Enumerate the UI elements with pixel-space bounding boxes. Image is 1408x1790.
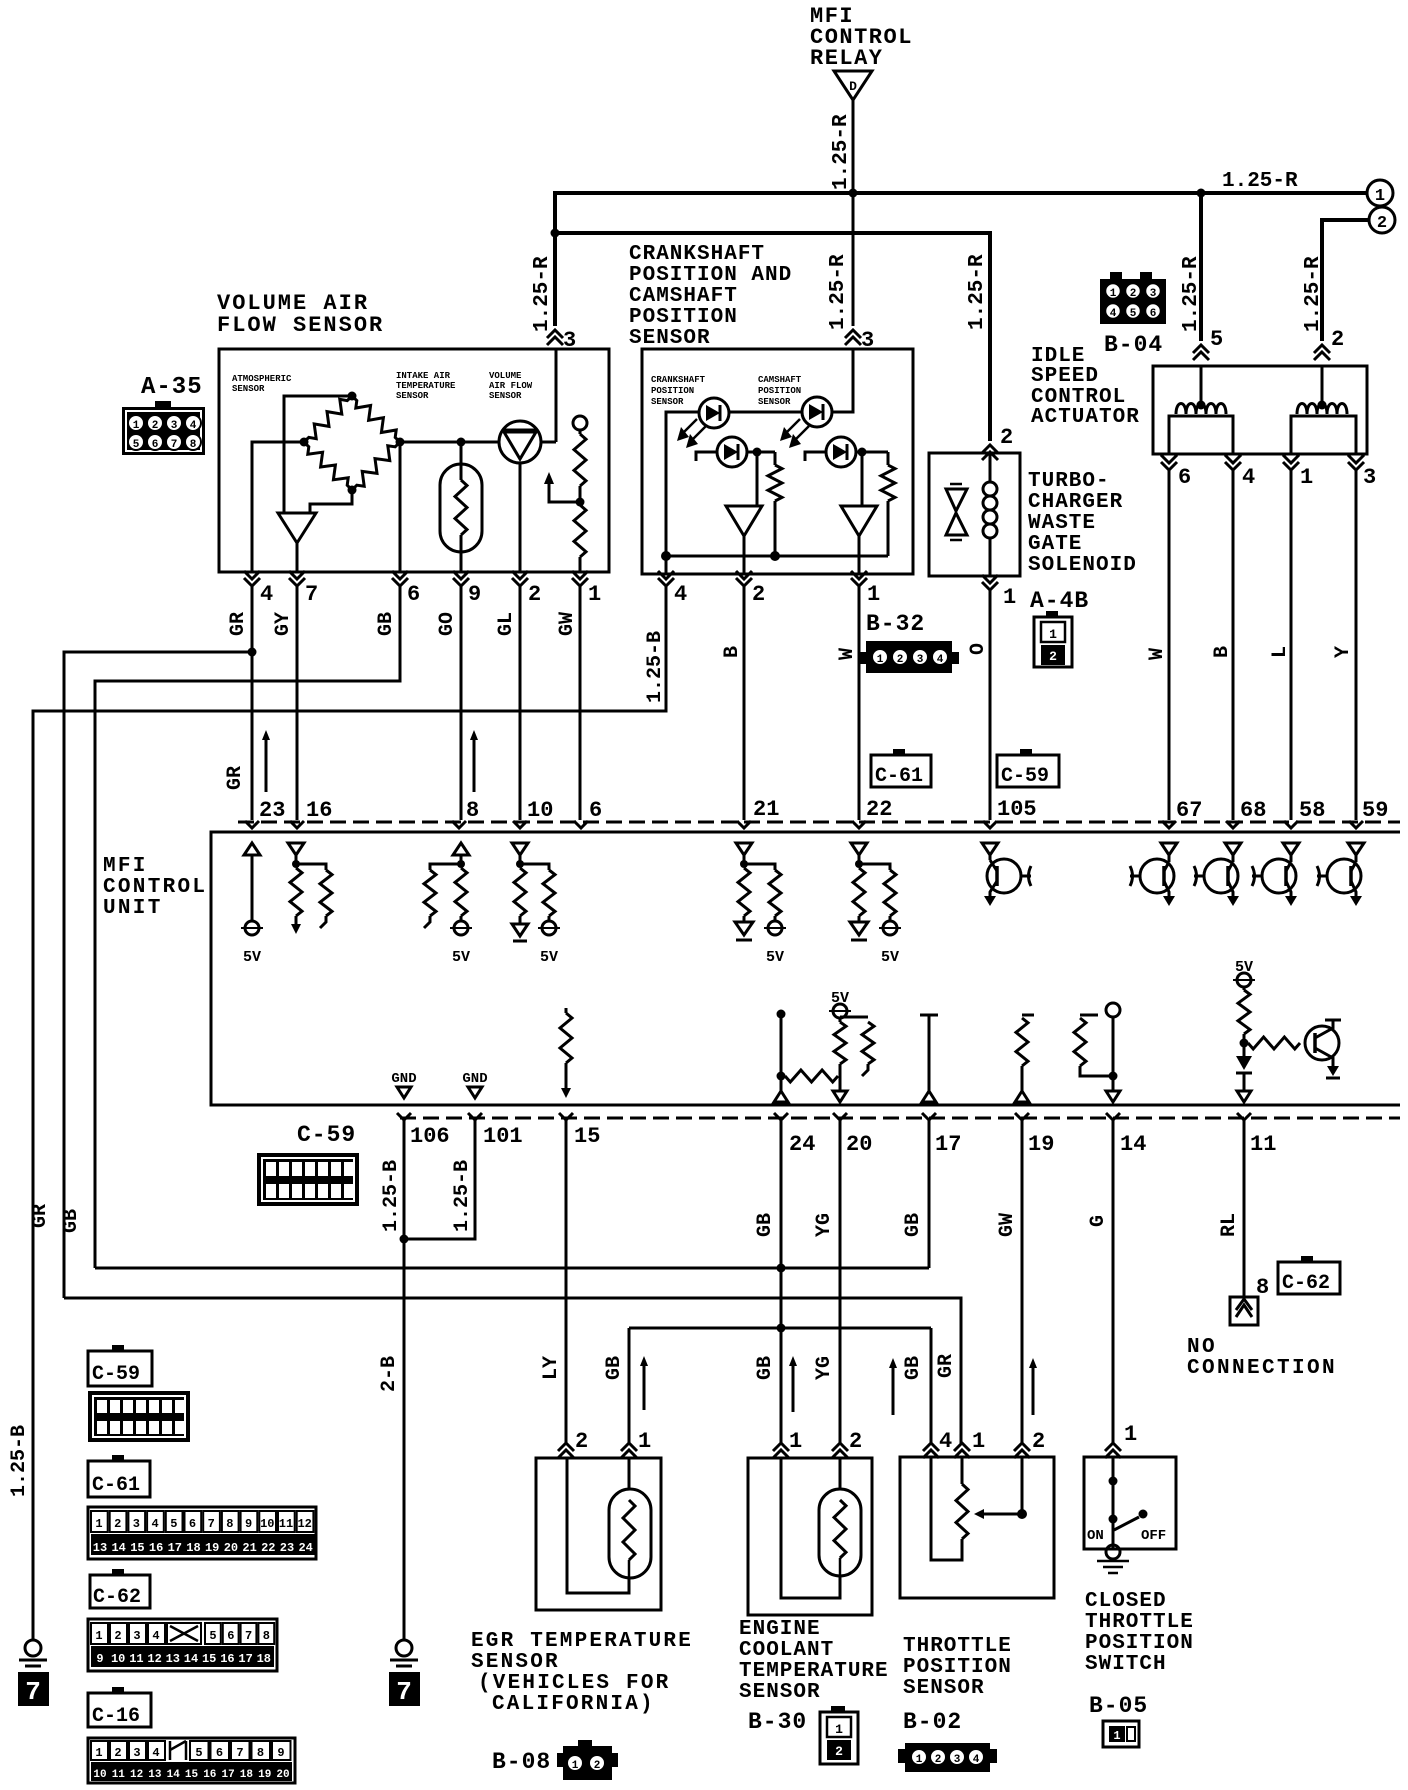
- svg-text:4: 4: [151, 1517, 158, 1531]
- svg-text:SENSOR: SENSOR: [651, 397, 684, 407]
- pin 1 arrow ISC bottom: [1283, 462, 1299, 470]
- svg-text:16: 16: [203, 1769, 216, 1781]
- svg-text:19: 19: [258, 1769, 271, 1781]
- svg-text:B: B: [1211, 646, 1234, 658]
- svg-text:1.25-B: 1.25-B: [451, 1160, 474, 1232]
- svg-text:CONNECTION: CONNECTION: [1187, 1357, 1337, 1380]
- wire between LEDs: [729, 411, 802, 414]
- svg-text:GB: GB: [603, 1356, 626, 1380]
- potentiometer TPS: [961, 1457, 964, 1484]
- svg-text:1: 1: [972, 1429, 985, 1454]
- pin 9 arrow VAF bottom: [453, 578, 469, 586]
- wire cam photo junction to amp: [861, 452, 864, 506]
- wire GY VAF7 to MFI16: [296, 586, 299, 820]
- svg-text:4: 4: [939, 1429, 952, 1454]
- pin 4 arrow TPS: [923, 1443, 939, 1451]
- svg-text:5V: 5V: [243, 949, 261, 966]
- wire GL VAF2 to MFI10: [519, 586, 522, 820]
- svg-text:CLOSED: CLOSED: [1085, 1590, 1167, 1613]
- phototransistor camshaft: [826, 437, 856, 467]
- pin 6 arrow ISC bottom: [1161, 462, 1177, 470]
- svg-text:13: 13: [93, 1541, 107, 1555]
- wire coil1 right leg to pin 4: [1229, 416, 1233, 454]
- svg-text:7: 7: [171, 439, 178, 451]
- svg-text:4: 4: [260, 582, 273, 607]
- svg-text:1: 1: [1003, 585, 1016, 610]
- wire crank LED to left rail: [666, 412, 699, 574]
- wire 1.25-R bus A: [553, 191, 1368, 195]
- svg-text:C-16: C-16: [92, 1705, 140, 1728]
- pin 1 arrow EGR: [621, 1443, 637, 1451]
- wire pin3 into crank box to LEDs: [832, 349, 853, 412]
- svg-text:18: 18: [240, 1769, 254, 1781]
- wire 1.25-R bus A down to VAF pin 3: [553, 193, 557, 326]
- connector A-4B: [1046, 611, 1058, 618]
- svg-text:24: 24: [789, 1132, 815, 1157]
- svg-text:6: 6: [189, 1517, 196, 1531]
- svg-text:1: 1: [835, 1722, 843, 1737]
- wire GW pin19 to TPS pin2: [1021, 1120, 1024, 1445]
- svg-text:THROTTLE: THROTTLE: [1085, 1611, 1194, 1634]
- svg-text:1: 1: [1124, 1422, 1137, 1447]
- svg-text:FLOW SENSOR: FLOW SENSOR: [217, 313, 384, 338]
- phototransistor crankshaft: [717, 437, 747, 467]
- pin 8 interior resistors 5V: [453, 843, 469, 855]
- svg-text:1: 1: [133, 420, 140, 432]
- wire 2-B to ground 7: [403, 1239, 406, 1641]
- svg-text:59: 59: [1362, 798, 1388, 823]
- svg-text:5V: 5V: [452, 949, 470, 966]
- svg-text:POSITION: POSITION: [1085, 1632, 1194, 1655]
- junction GB rail2 pin24: [777, 1324, 786, 1333]
- svg-text:7: 7: [396, 1677, 412, 1707]
- connector C-59 pinblock mid: [257, 1153, 359, 1206]
- svg-text:ON: ON: [1087, 1528, 1104, 1544]
- svg-text:TEMPERATURE: TEMPERATURE: [396, 381, 456, 391]
- svg-text:C-61: C-61: [875, 765, 923, 788]
- junction potentiometer wiper: [576, 498, 585, 507]
- pin 2 arrow ISC: [1314, 345, 1330, 353]
- svg-text:1.25-R: 1.25-R: [1302, 256, 1325, 332]
- junction bus B on VAF3 wire: [551, 229, 560, 238]
- svg-text:3: 3: [171, 420, 178, 432]
- svg-text:GR: GR: [224, 766, 247, 790]
- svg-text:(VEHICLES FOR: (VEHICLES FOR: [478, 1672, 670, 1695]
- connector tag C-16 left: [112, 1687, 124, 1694]
- svg-text:7: 7: [208, 1517, 215, 1531]
- junction B-04 pin5 wire on bus A: [1197, 189, 1206, 198]
- wire B crank2 to MFI21: [743, 586, 746, 820]
- svg-text:6: 6: [152, 439, 159, 451]
- svg-text:9: 9: [468, 582, 481, 607]
- pin 7 arrow VAF bottom: [289, 578, 305, 586]
- svg-text:10: 10: [93, 1769, 106, 1781]
- pin 1 arrow VAF bottom: [572, 578, 588, 586]
- svg-text:2: 2: [152, 420, 159, 432]
- thermistor ECT: [839, 1458, 842, 1489]
- arrow up GB TPS wire: [892, 1364, 895, 1415]
- svg-text:10: 10: [527, 798, 553, 823]
- svg-text:15: 15: [202, 1652, 216, 1666]
- pin chevrons MFI row2: [397, 1113, 411, 1120]
- svg-text:AIR FLOW: AIR FLOW: [489, 381, 533, 391]
- pin 1 arrow ECT: [773, 1443, 789, 1451]
- wire GB pin24 to ECT pin1: [780, 1120, 783, 1445]
- svg-text:17: 17: [221, 1769, 234, 1781]
- svg-text:21: 21: [242, 1541, 256, 1555]
- solenoid coil turbo: [989, 453, 992, 482]
- svg-text:SWITCH: SWITCH: [1085, 1653, 1167, 1676]
- svg-text:B-32: B-32: [866, 611, 925, 637]
- node bridge top: [348, 392, 357, 401]
- svg-text:2: 2: [114, 1746, 121, 1760]
- pin 1 arrow crank bottom: [851, 578, 867, 586]
- svg-text:SENSOR: SENSOR: [903, 1677, 985, 1700]
- svg-text:68: 68: [1240, 798, 1266, 823]
- svg-text:VOLUME: VOLUME: [489, 371, 522, 381]
- svg-text:GR: GR: [935, 1354, 958, 1378]
- pin 3 arrow crank: [845, 330, 861, 338]
- svg-text:UNIT: UNIT: [103, 897, 163, 920]
- switch closed throttle position: [1112, 1457, 1115, 1549]
- LED camshaft position sensor: [802, 397, 832, 427]
- ground symbol 7 left: [25, 1640, 41, 1656]
- svg-text:RELAY: RELAY: [810, 46, 884, 71]
- resistor potentiometer upper: [579, 430, 582, 434]
- svg-text:2: 2: [1331, 327, 1344, 352]
- svg-text:SPEED: SPEED: [1031, 365, 1099, 388]
- node bridge right: [396, 438, 405, 447]
- box EGR temperature sensor: [536, 1458, 661, 1610]
- svg-text:101: 101: [483, 1124, 523, 1149]
- valve symbol waste gate (bowtie): [946, 489, 967, 511]
- svg-text:B-30: B-30: [748, 1709, 807, 1735]
- svg-text:W: W: [1146, 648, 1169, 660]
- svg-text:1.25-R: 1.25-R: [1222, 170, 1298, 193]
- svg-text:SENSOR: SENSOR: [739, 1681, 821, 1704]
- svg-text:GR: GR: [227, 612, 250, 636]
- svg-text:1: 1: [638, 1429, 651, 1454]
- svg-text:GB: GB: [902, 1356, 925, 1380]
- svg-text:23: 23: [259, 798, 285, 823]
- box throttle position sensor: [900, 1457, 1054, 1598]
- svg-text:POSITION: POSITION: [629, 306, 738, 329]
- pin 4 arrow ISC bottom: [1225, 462, 1241, 470]
- svg-text:SOLENOID: SOLENOID: [1028, 554, 1137, 577]
- svg-text:B-05: B-05: [1089, 1693, 1148, 1719]
- svg-text:MFI: MFI: [103, 855, 148, 878]
- wire circled2 to ISC pin 2: [1322, 220, 1369, 341]
- svg-text:C-62: C-62: [1282, 1272, 1330, 1295]
- wire 1.25-R B-04 pin5 to ISC: [1199, 193, 1203, 341]
- svg-text:GATE: GATE: [1028, 533, 1082, 556]
- svg-text:A-4B: A-4B: [1030, 588, 1089, 614]
- svg-text:1: 1: [1113, 1729, 1120, 1743]
- svg-text:6: 6: [227, 1629, 234, 1643]
- node bridge left: [300, 438, 309, 447]
- svg-text:8: 8: [263, 1629, 270, 1643]
- arrow up GR wire: [265, 736, 268, 792]
- svg-text:13: 13: [148, 1769, 162, 1781]
- svg-text:YG: YG: [813, 1213, 836, 1237]
- junction GR branch: [248, 648, 257, 657]
- wire bridge top to amplifier: [284, 396, 352, 513]
- pin 2 arrow VAF bottom: [512, 578, 528, 586]
- wire bridge left to pin 4: [252, 442, 304, 572]
- gnd triangle 101: [468, 1087, 482, 1098]
- svg-text:2: 2: [1377, 214, 1387, 233]
- svg-text:2: 2: [528, 582, 541, 607]
- svg-text:21: 21: [753, 797, 779, 822]
- svg-text:GB: GB: [375, 612, 398, 636]
- svg-text:106: 106: [410, 1124, 450, 1149]
- junction GB rail pin24: [777, 1264, 786, 1273]
- wire bottom rail crank box: [666, 555, 888, 558]
- wire GR branch to left riser: [64, 652, 252, 1298]
- svg-text:C-59: C-59: [1001, 765, 1049, 788]
- svg-text:19: 19: [1028, 1132, 1054, 1157]
- svg-text:SENSOR: SENSOR: [489, 391, 522, 401]
- svg-text:4: 4: [973, 1754, 980, 1766]
- svg-text:12: 12: [130, 1769, 143, 1781]
- pin 1 arrow CTP switch: [1105, 1443, 1121, 1451]
- svg-text:NO: NO: [1187, 1336, 1217, 1359]
- svg-text:C-59: C-59: [297, 1122, 356, 1148]
- wire cam photo to resistor: [856, 451, 888, 454]
- wire 1.25-B pin101: [404, 1120, 475, 1239]
- connector C-61 pinblock: [88, 1507, 316, 1559]
- svg-text:13: 13: [166, 1652, 180, 1666]
- connector C-62 end (no connection): [1230, 1297, 1258, 1325]
- wire YG pin20 to ECT pin2: [839, 1120, 842, 1445]
- svg-text:C-59: C-59: [92, 1363, 140, 1386]
- svg-text:ACTUATOR: ACTUATOR: [1031, 406, 1140, 429]
- connector tag C-61 left: [112, 1455, 124, 1462]
- wire flow circle to pin 3 riser: [541, 441, 556, 444]
- svg-text:G: G: [1087, 1215, 1110, 1227]
- transistor pin 68: [1225, 843, 1241, 855]
- resistor pin 15 interior: [565, 1008, 568, 1013]
- svg-text:5V: 5V: [881, 949, 899, 966]
- svg-text:GY: GY: [272, 612, 295, 636]
- svg-text:W: W: [836, 648, 859, 660]
- junction intake air temp tap: [457, 438, 466, 447]
- svg-text:24: 24: [298, 1541, 312, 1555]
- pin 17 interior: [920, 1014, 938, 1017]
- junction rail left: [661, 551, 671, 561]
- svg-text:TURBO-: TURBO-: [1028, 470, 1110, 493]
- wire O turbo1 to MFI105: [989, 590, 992, 820]
- pin 1 arrow TPS: [954, 1443, 970, 1451]
- svg-text:2: 2: [752, 582, 765, 607]
- wire GB to EGR pin1: [628, 1328, 631, 1445]
- svg-text:4: 4: [674, 582, 687, 607]
- pin 2 arrow turbo: [982, 445, 998, 453]
- box crankshaft and camshaft position sensor: [642, 349, 913, 574]
- svg-text:1: 1: [95, 1629, 102, 1643]
- pin 16 interior resistors: [288, 843, 304, 855]
- svg-text:CRANKSHAFT: CRANKSHAFT: [629, 243, 765, 266]
- box MFI control unit: [211, 832, 1400, 1105]
- svg-text:GW: GW: [556, 612, 579, 636]
- svg-text:18: 18: [257, 1652, 271, 1666]
- svg-text:ATMOSPHERIC: ATMOSPHERIC: [232, 374, 292, 384]
- svg-text:CRANKSHAFT: CRANKSHAFT: [651, 375, 706, 385]
- svg-text:2: 2: [1130, 288, 1137, 300]
- pin 1 arrow turbo bottom: [982, 582, 998, 590]
- svg-text:8: 8: [257, 1746, 264, 1760]
- svg-text:POSITION AND: POSITION AND: [629, 264, 792, 287]
- base stub cam photo: [805, 452, 826, 461]
- wire GW VAF1 to MFI6: [579, 586, 582, 820]
- svg-text:14: 14: [167, 1769, 181, 1781]
- svg-text:SENSOR: SENSOR: [396, 391, 429, 401]
- wire crank amp to pin 2: [743, 536, 746, 574]
- svg-text:2: 2: [1032, 1429, 1045, 1454]
- wire crank photo junction to amp: [756, 452, 759, 506]
- svg-text:1: 1: [1049, 627, 1057, 642]
- wire 1.25-R relay to crank sensor pin 3: [852, 100, 855, 326]
- svg-text:2: 2: [897, 654, 904, 666]
- svg-text:2: 2: [594, 1760, 601, 1772]
- connector C-62 pinblock: [88, 1619, 277, 1671]
- svg-text:9: 9: [245, 1517, 252, 1531]
- svg-text:GB: GB: [754, 1213, 777, 1237]
- svg-text:CAMSHAFT: CAMSHAFT: [758, 375, 802, 385]
- wire RL pin11 to C-62: [1243, 1120, 1246, 1297]
- pin 5 arrow ISC: [1193, 345, 1209, 353]
- pin 2 arrow crank bottom: [736, 578, 752, 586]
- svg-text:GB: GB: [902, 1213, 925, 1237]
- svg-text:5: 5: [1130, 308, 1137, 320]
- pin 19 interior resistor: [1022, 1014, 1034, 1017]
- svg-text:20: 20: [846, 1132, 872, 1157]
- transistor pin 59: [1348, 843, 1364, 855]
- svg-text:2-B: 2-B: [378, 1356, 401, 1392]
- wire W crank1 to MFI22: [858, 586, 861, 820]
- svg-text:2: 2: [935, 1754, 942, 1766]
- svg-text:GL: GL: [495, 612, 518, 636]
- connector B-04: [1100, 279, 1166, 324]
- svg-text:10: 10: [111, 1652, 125, 1666]
- wire thermistor to pin 9: [460, 552, 463, 572]
- wire LY pin15 to EGR pin2: [565, 1120, 568, 1445]
- svg-text:14: 14: [1120, 1132, 1146, 1157]
- svg-text:1: 1: [588, 582, 601, 607]
- arrow up GB ECT wire: [792, 1362, 795, 1412]
- pin 2 arrow EGR: [558, 1443, 574, 1451]
- svg-text:20: 20: [224, 1541, 238, 1555]
- svg-text:17: 17: [238, 1652, 252, 1666]
- svg-text:GW: GW: [996, 1213, 1019, 1237]
- wire W ISC6 to MFI67: [1168, 470, 1171, 820]
- svg-text:14: 14: [111, 1541, 125, 1555]
- ground CTP switch: [1106, 1545, 1120, 1559]
- resistor potentiometer lower: [574, 505, 586, 557]
- light arrows crankshaft: [683, 419, 697, 433]
- svg-text:SENSOR: SENSOR: [758, 397, 791, 407]
- svg-text:1: 1: [572, 1760, 579, 1772]
- wire L ISC1 to MFI58: [1290, 470, 1293, 820]
- svg-text:6: 6: [1178, 465, 1191, 490]
- wiper arm volume air flow sensor: [549, 482, 578, 502]
- svg-text:5: 5: [133, 439, 140, 451]
- svg-text:1: 1: [867, 582, 880, 607]
- svg-text:1.25-B: 1.25-B: [380, 1160, 403, 1232]
- wire bridge right to pin 6: [399, 442, 402, 572]
- connector tag C-59 left: [112, 1345, 124, 1352]
- svg-text:5: 5: [195, 1746, 202, 1760]
- svg-text:2: 2: [835, 1744, 843, 1759]
- connector C-59 pinblock left: [88, 1391, 190, 1442]
- svg-text:67: 67: [1176, 798, 1202, 823]
- pin 3 arrow ISC bottom: [1348, 462, 1364, 470]
- wire 1.25-B pin106 to ground 7: [403, 1120, 406, 1641]
- wire GO VAF9 to MFI8: [460, 586, 463, 820]
- pin chevrons MFI row1: [245, 821, 259, 828]
- svg-text:EGR TEMPERATURE: EGR TEMPERATURE: [471, 1630, 693, 1653]
- wire 1.25-R bus B to turbo solenoid: [555, 233, 990, 441]
- svg-text:1: 1: [1300, 465, 1313, 490]
- svg-text:4: 4: [152, 1746, 159, 1760]
- svg-text:GND: GND: [391, 1071, 416, 1087]
- svg-text:6: 6: [1150, 308, 1157, 320]
- node circled 2: [1369, 207, 1395, 233]
- LED crankshaft position sensor: [699, 398, 729, 428]
- connector symbol MFI control relay (triangle): [834, 71, 872, 100]
- wire flow circle to pin 2: [519, 463, 522, 572]
- svg-text:D: D: [849, 79, 857, 94]
- svg-text:TEMPERATURE: TEMPERATURE: [739, 1660, 889, 1683]
- svg-text:CAMSHAFT: CAMSHAFT: [629, 285, 738, 308]
- svg-text:14: 14: [184, 1652, 198, 1666]
- box closed throttle position switch: [1084, 1457, 1176, 1549]
- arrow up GW TPS wire: [1032, 1364, 1035, 1415]
- svg-text:SENSOR: SENSOR: [232, 384, 265, 394]
- svg-text:1.25-R: 1.25-R: [1180, 256, 1203, 332]
- connector C-16 pinblock: [88, 1738, 295, 1783]
- wire GB VAF6 to left riser: [95, 586, 400, 1268]
- svg-text:6: 6: [589, 798, 602, 823]
- svg-text:OFF: OFF: [1141, 1528, 1166, 1544]
- svg-text:B-04: B-04: [1104, 332, 1163, 358]
- svg-text:16: 16: [306, 798, 332, 823]
- svg-text:6: 6: [216, 1746, 223, 1760]
- svg-text:9: 9: [277, 1746, 284, 1760]
- svg-text:GB: GB: [754, 1356, 777, 1380]
- connector tag C-62 mid: [1301, 1256, 1313, 1263]
- wire GB pin17 to GB rail: [928, 1120, 931, 1268]
- arrow up GO wire: [473, 736, 476, 792]
- wire G pin14 to CTP switch: [1112, 1120, 1115, 1445]
- pin 2 arrow ECT: [832, 1443, 848, 1451]
- svg-text:5: 5: [1210, 327, 1223, 352]
- op-amp atmospheric sensor (triangle): [278, 513, 316, 543]
- svg-text:22: 22: [866, 797, 892, 822]
- wire ISC pin2 to coil2: [1321, 366, 1324, 407]
- wire coil2 right leg to pin 3: [1350, 416, 1356, 454]
- svg-text:7: 7: [305, 582, 318, 607]
- svg-text:CHARGER: CHARGER: [1028, 491, 1123, 514]
- svg-text:17: 17: [935, 1132, 961, 1157]
- dashed connector line MFI row1: [238, 821, 1400, 824]
- wire coil1 left leg to pin 6: [1169, 416, 1173, 454]
- svg-text:SENSOR: SENSOR: [471, 1651, 560, 1674]
- svg-text:YG: YG: [813, 1356, 836, 1380]
- svg-text:1: 1: [789, 1429, 802, 1454]
- svg-text:1: 1: [1375, 187, 1385, 206]
- svg-text:16: 16: [149, 1541, 163, 1555]
